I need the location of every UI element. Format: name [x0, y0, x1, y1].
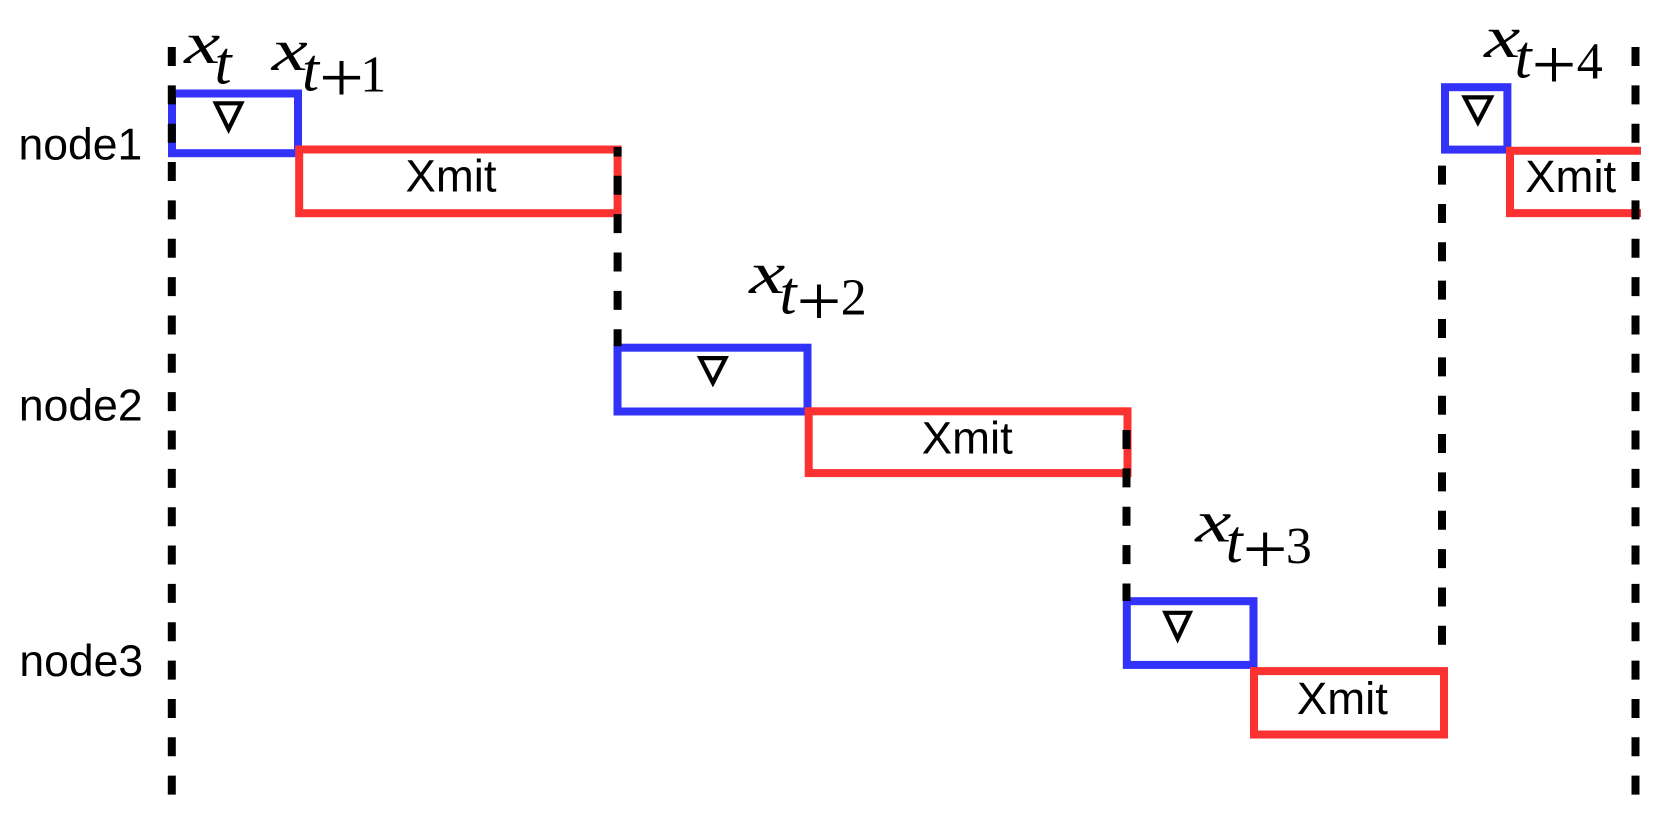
svg-text:1: 1 — [360, 47, 386, 104]
svg-text:4: 4 — [1577, 33, 1603, 90]
svg-text:Xmit: Xmit — [1297, 673, 1388, 724]
svg-text:node3: node3 — [19, 637, 143, 686]
svg-text:+: + — [1532, 25, 1577, 105]
svg-text:+: + — [319, 38, 364, 118]
svg-text:Xmit: Xmit — [406, 151, 497, 202]
svg-text:3: 3 — [1286, 518, 1312, 575]
svg-text:Xmit: Xmit — [1525, 151, 1616, 202]
svg-text:node2: node2 — [19, 381, 143, 430]
svg-text:t: t — [215, 31, 234, 98]
svg-text:+: + — [1243, 509, 1288, 589]
svg-text:node1: node1 — [19, 121, 143, 170]
svg-text:Xmit: Xmit — [922, 413, 1013, 464]
svg-text:2: 2 — [841, 270, 867, 327]
svg-text:+: + — [797, 261, 842, 341]
